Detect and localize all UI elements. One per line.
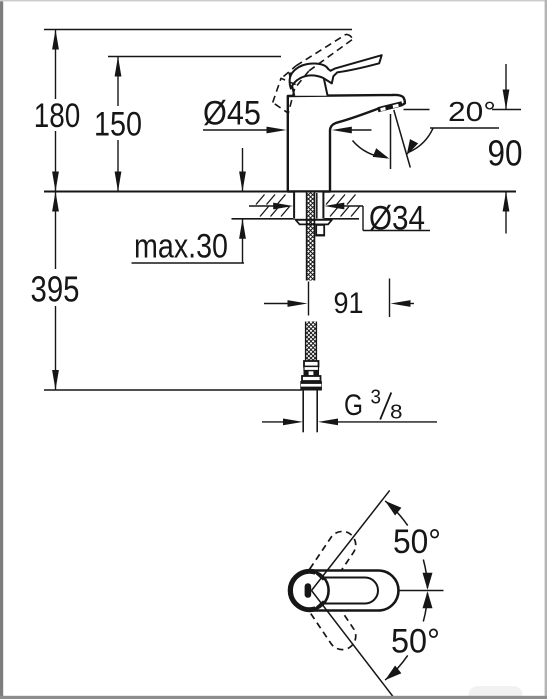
svg-text:50°: 50° [391,623,440,661]
svg-text:91: 91 [334,287,364,320]
svg-text:Ø45: Ø45 [203,94,261,132]
svg-text:150: 150 [94,106,142,144]
svg-text:8: 8 [390,402,403,424]
svg-text:max.30: max.30 [134,228,228,266]
svg-text:395: 395 [31,269,80,310]
svg-text:G: G [344,389,363,422]
svg-text:3: 3 [371,387,382,409]
svg-text:20°: 20° [448,96,496,127]
svg-text:50°: 50° [393,523,441,561]
svg-text:90: 90 [488,133,523,174]
svg-text:180: 180 [34,97,81,135]
svg-text:Ø34: Ø34 [369,200,425,238]
